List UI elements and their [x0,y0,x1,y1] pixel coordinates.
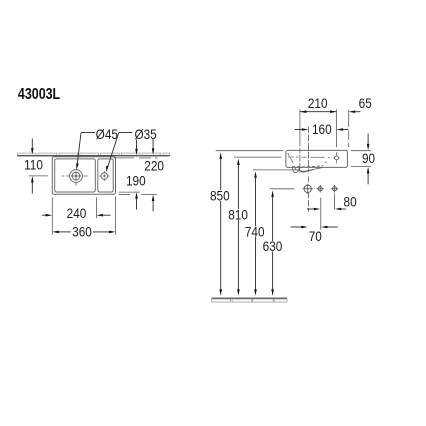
leader O35 diagonal + arrow [108,133,119,167]
floor line [212,297,287,299]
svg-text:160: 160 [312,122,332,137]
basin outer rect (top view) [52,157,115,195]
850 extension line [216,150,283,152]
svg-text:220: 220 [144,159,164,174]
extension verticals for 210/65 [299,109,301,146]
drain circle O45 [70,170,83,183]
svg-text:240: 240 [67,207,87,222]
740 extension line [253,169,299,171]
svg-text:70: 70 [309,230,322,245]
trap / outlet under basin [293,168,323,173]
svg-text:740: 740 [245,225,265,240]
drain hole front (circle with cross) [303,184,313,194]
svg-text:Ø45: Ø45 [96,127,118,142]
drain centerline dashes [62,171,88,186]
hole extension verticals [320,198,322,230]
svg-text:110: 110 [24,158,43,173]
deck bottom extension line [119,191,140,193]
drain dashed centerline [307,127,309,212]
mounting hole cross 1 [316,185,324,193]
leader O45 diagonal + arrow [77,133,81,164]
leader shoulder between [119,132,133,134]
svg-text:190: 190 [126,174,146,189]
mounting hole cross 2 [331,185,339,193]
outer bottom extension line [119,193,157,195]
svg-text:65: 65 [359,96,372,111]
240 extension line [95,197,97,218]
drain center cross [71,171,81,181]
630 / holes extension line [270,188,295,190]
svg-text:360: 360 [72,225,92,240]
360 extension lines [51,197,53,235]
svg-text:80: 80 [344,195,357,210]
deck inner rect [98,159,113,192]
svg-text:43003L: 43003L [18,86,60,104]
faucet hole O35 (top view) [99,171,109,181]
svg-text:850: 850 [210,189,230,204]
wall line [17,155,169,157]
basin front outline [286,150,348,167]
wall hatch bricks [17,153,169,155]
floor hatch bricks [212,299,287,302]
leader shoulder left of O45 [81,132,95,134]
deck top extension line [114,157,158,159]
810 extension line [234,156,281,158]
interior diagonal dashes [288,153,327,163]
hidden bowl bottom dashes [292,166,324,167]
svg-text:90: 90 [362,152,375,167]
210-left dashed centerline down through basin [299,148,301,173]
holes centerline left extension [29,175,48,177]
faucet hole front (cross) [333,152,340,163]
svg-text:210: 210 [308,96,328,111]
interior hidden dash line (rim) [288,156,330,158]
bowl inner rect [55,159,96,192]
